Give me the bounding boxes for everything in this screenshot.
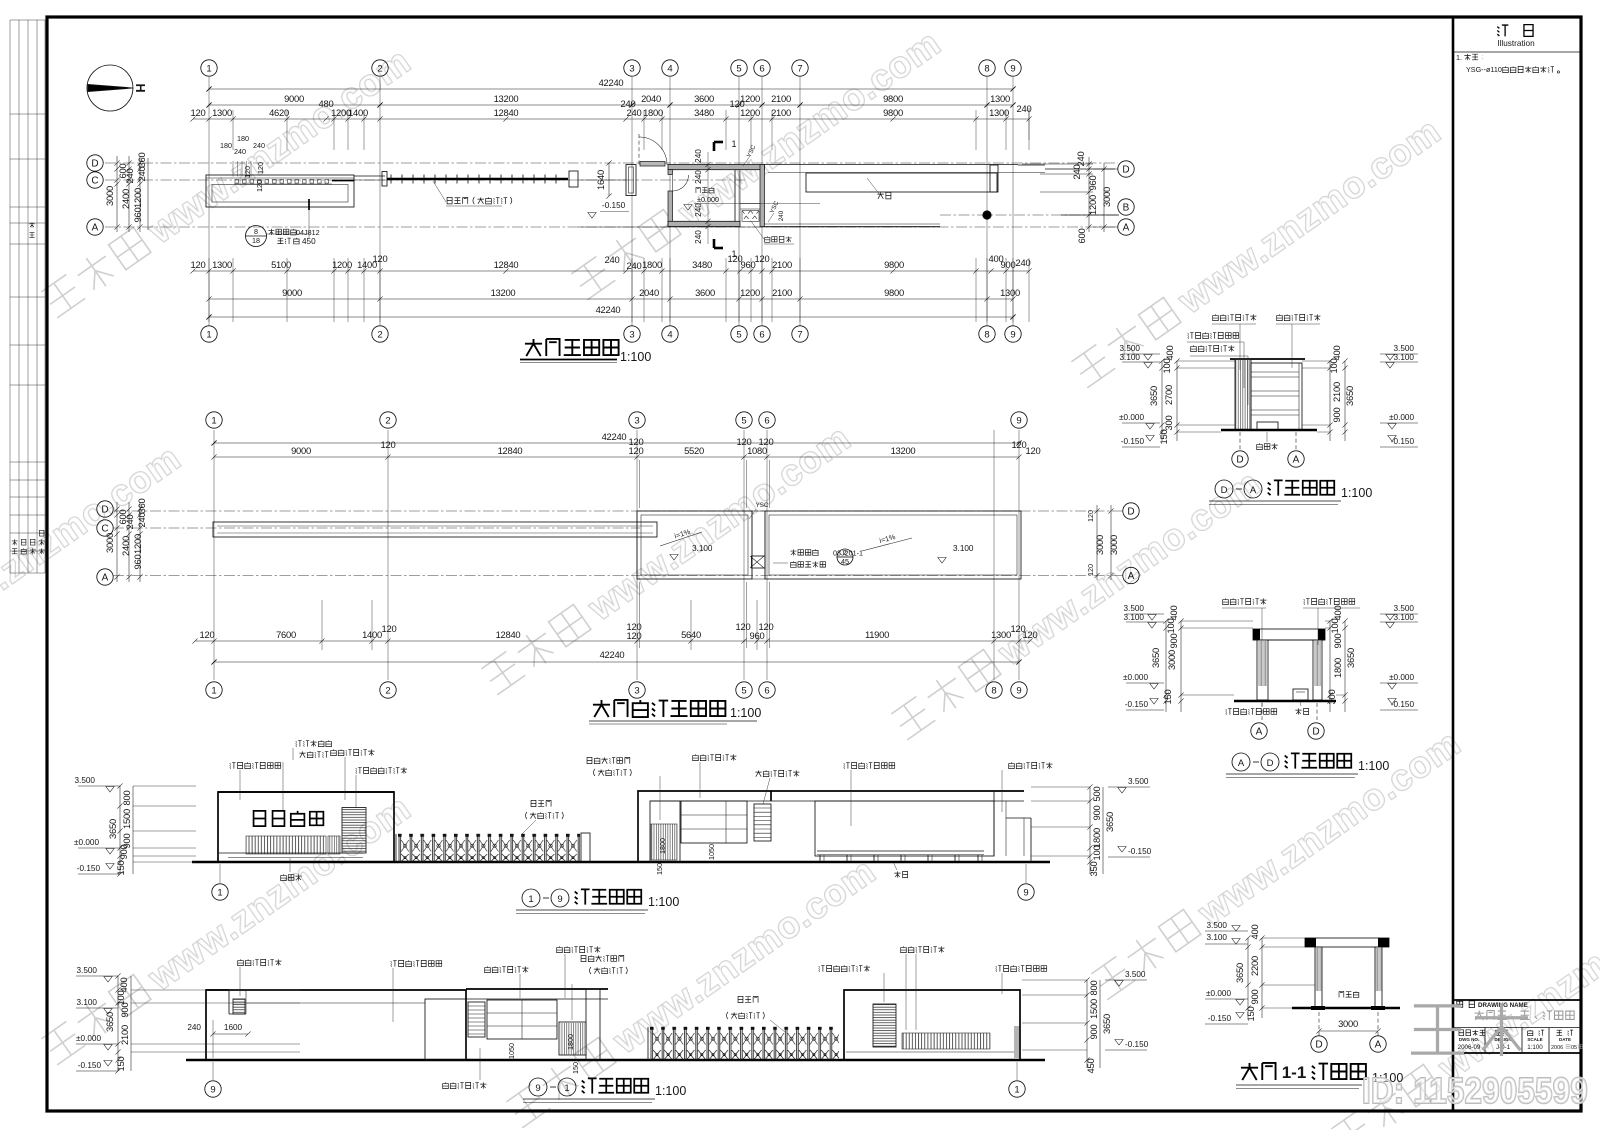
roof: left axis circles [97, 501, 113, 517]
svg-text:-0.150: -0.150 [1125, 700, 1149, 709]
svg-text:1:100: 1:100 [620, 350, 651, 364]
svg-text:YSG--ø110: YSG--ø110 [1466, 65, 1502, 74]
svg-text:1: 1 [528, 894, 533, 905]
svg-text:1800: 1800 [643, 107, 663, 118]
svg-text:-0.150: -0.150 [602, 201, 626, 210]
svg-text:-0.150: -0.150 [77, 864, 101, 873]
roof: right roof drain note [837, 549, 853, 565]
svg-text:05: 05 [1571, 1045, 1577, 1051]
svg-text:42240: 42240 [602, 431, 627, 442]
svg-text:1:100: 1:100 [655, 1084, 686, 1098]
svg-text:900: 900 [119, 1003, 130, 1018]
svg-text:1: 1 [211, 415, 216, 426]
svg-text:A: A [1256, 727, 1263, 738]
svg-text:240: 240 [694, 230, 703, 244]
svg-text:3.100: 3.100 [1120, 353, 1141, 362]
plan: wall gate to pier [578, 179, 626, 181]
plan: axis D centerline [105, 162, 1118, 164]
plan: left axis circles D C A [87, 155, 103, 171]
svg-text:±0.000: ±0.000 [76, 1034, 101, 1043]
svg-text:3650: 3650 [1104, 812, 1115, 832]
svg-text:3.500: 3.500 [1125, 970, 1146, 979]
svg-text:1:100: 1:100 [730, 706, 761, 720]
svg-text:3000: 3000 [1094, 535, 1105, 555]
svg-text:120: 120 [373, 253, 388, 264]
elev91: right wall plinth [846, 1051, 1020, 1053]
roof: bottom dim row1 [195, 640, 1030, 642]
plan: top dim extension verticals [232, 110, 234, 150]
svg-text:120: 120 [1026, 445, 1041, 456]
svg-text:6: 6 [764, 415, 769, 426]
roof: grid verticals [213, 430, 215, 680]
svg-text:3.100: 3.100 [1394, 353, 1415, 362]
svg-text:3.500: 3.500 [1394, 604, 1415, 613]
svg-text:1800: 1800 [642, 259, 662, 270]
svg-text:9800: 9800 [884, 259, 904, 270]
svg-text:120: 120 [759, 436, 774, 447]
svg-text:240: 240 [778, 210, 785, 221]
svg-text:120: 120 [382, 623, 397, 634]
svg-text:DWG NO.: DWG NO. [1459, 1037, 1479, 1042]
big znzmo logo watermark [1411, 1003, 1528, 1056]
svg-text:-0.150: -0.150 [1125, 1040, 1149, 1049]
elev91: gatehouse window grid [487, 1000, 557, 1039]
svg-text:3650: 3650 [1150, 648, 1161, 668]
sec11: room label [1339, 991, 1344, 997]
svg-text:3000: 3000 [1108, 535, 1119, 555]
plan: top dim row2 [209, 104, 1013, 106]
plan: bench top wall band [765, 164, 1019, 166]
svg-text:240: 240 [1071, 165, 1082, 180]
plan: planter outer rect [206, 175, 354, 207]
tiled watermark layer [38, 40, 419, 324]
svg-text:1:100: 1:100 [1341, 486, 1372, 500]
plan: top dim line 42240 [209, 88, 1013, 90]
svg-text:150: 150 [115, 1057, 126, 1072]
svg-text:2100: 2100 [771, 107, 791, 118]
svg-text:1300: 1300 [991, 629, 1011, 640]
svg-text:120: 120 [1086, 510, 1095, 522]
svg-text:1500: 1500 [121, 809, 132, 829]
svg-text:4: 4 [667, 63, 672, 74]
elev91: gatehouse ladder [468, 1002, 485, 1037]
elev19: left sign wall outline [218, 792, 394, 862]
svg-text:6: 6 [759, 329, 764, 340]
svg-text:9000: 9000 [282, 287, 302, 298]
roof: right dim columns [1096, 505, 1098, 580]
svg-text:1: 1 [1014, 1084, 1019, 1095]
svg-text:12840: 12840 [494, 259, 519, 270]
roof: right axis circles [1123, 503, 1139, 519]
svg-text:5: 5 [741, 415, 746, 426]
plan title [525, 339, 542, 356]
svg-text:150: 150 [115, 861, 126, 876]
svg-text:3650: 3650 [107, 819, 118, 839]
svg-text:9800: 9800 [883, 107, 903, 118]
elev19: gatehouse window grid [681, 801, 747, 843]
svg-text:B: B [1123, 203, 1130, 214]
svg-text:1300: 1300 [990, 93, 1010, 104]
svg-text:2100: 2100 [1331, 382, 1342, 402]
svg-text:D: D [1127, 507, 1134, 518]
svg-text:240: 240 [187, 1023, 201, 1032]
svg-text:240: 240 [124, 515, 135, 530]
svg-text:120: 120 [627, 630, 642, 641]
plan: grid circles bottom [201, 326, 217, 342]
svg-text:150: 150 [571, 1062, 580, 1074]
elevAD: top beam [1253, 629, 1325, 640]
elev91: right wall gray strip [1014, 1026, 1019, 1058]
svg-text:180: 180 [237, 134, 249, 143]
svg-text:120: 120 [381, 439, 396, 450]
elevAD: axis circles [1261, 703, 1263, 720]
roof: bottom extension verticals [321, 600, 323, 650]
svg-text:240: 240 [136, 167, 147, 182]
plan: retractable gate right end post [569, 171, 578, 187]
svg-text:18: 18 [252, 236, 260, 245]
svg-text:2100: 2100 [119, 1025, 130, 1045]
roof: axis C centerline [113, 527, 640, 529]
plan: gatehouse left wall lower [668, 191, 673, 227]
shuoming (illustration) panel header [1497, 25, 1508, 36]
svg-text:1: 1 [211, 685, 216, 696]
svg-text:120: 120 [256, 162, 265, 174]
svg-text:1:100: 1:100 [648, 895, 679, 909]
svg-text:120: 120 [1086, 564, 1095, 576]
svg-text:D: D [1315, 1040, 1322, 1051]
svg-text:2200: 2200 [1249, 956, 1260, 976]
elev19: gatehouse ladder feature [754, 804, 771, 841]
svg-text:1300: 1300 [212, 107, 232, 118]
sec11: axis circles [1311, 1036, 1327, 1052]
roof: right roof slab [765, 511, 1021, 579]
title block frame [1453, 999, 1581, 1001]
svg-text:2: 2 [385, 685, 390, 696]
svg-text:1:100: 1:100 [1527, 1044, 1543, 1051]
svg-text:120: 120 [755, 253, 770, 264]
svg-text:±0.000: ±0.000 [1206, 989, 1231, 998]
svg-text:150: 150 [1162, 690, 1173, 705]
svg-text:3.500: 3.500 [1124, 604, 1145, 613]
roof: top dim row2 [214, 456, 1019, 458]
svg-text:42240: 42240 [599, 77, 624, 88]
elev19: bench label [894, 871, 900, 877]
plan: flower-bed reference symbol [246, 226, 267, 247]
plan: electric gate label [447, 197, 452, 203]
svg-text:03J201-1: 03J201-1 [833, 549, 863, 558]
svg-text:3650: 3650 [1344, 386, 1355, 406]
plan: retractable gate post left [382, 172, 387, 187]
svg-text:-0.150: -0.150 [1208, 1014, 1232, 1023]
svg-text:9: 9 [1016, 415, 1021, 426]
sec11: dim 3000 [1318, 1012, 1320, 1036]
plan: column dot at grid8/B [983, 211, 991, 219]
svg-text:120: 120 [200, 629, 215, 640]
svg-text:C: C [101, 524, 108, 535]
plan: gatehouse wall dim 240s [707, 152, 709, 244]
roof: grid circles bottom [206, 682, 222, 698]
elevDA: qingshitiao label [1257, 443, 1263, 449]
svg-text:1: 1 [206, 63, 211, 74]
svg-text:100: 100 [1161, 359, 1172, 374]
svg-text:12840: 12840 [496, 629, 521, 640]
svg-text:240: 240 [694, 149, 703, 163]
svg-text:Illustration: Illustration [1497, 39, 1535, 48]
elev91: gatehouse steel door [559, 1022, 586, 1055]
svg-text:1: 1 [564, 1083, 569, 1094]
elev91: left wall notch [206, 989, 229, 991]
svg-text:900: 900 [1332, 634, 1343, 649]
svg-text:D: D [1236, 455, 1243, 466]
elev19: ground line [192, 861, 1050, 864]
svg-text:3000: 3000 [104, 186, 115, 206]
elev19: electric gate label [531, 800, 536, 806]
svg-text:2040: 2040 [641, 93, 661, 104]
svg-text:600: 600 [1076, 229, 1087, 244]
title block: drawing name header [1457, 1001, 1463, 1007]
elev91: right wall grille [902, 1033, 990, 1049]
svg-text:3600: 3600 [695, 287, 715, 298]
svg-text:13200: 13200 [891, 445, 916, 456]
svg-text:DATE: DATE [1559, 1037, 1571, 1042]
svg-text:240: 240 [1075, 152, 1086, 167]
plan: bench label [877, 192, 883, 198]
svg-text:±0.000: ±0.000 [1389, 673, 1414, 682]
elevDA: right wall with bands [1251, 363, 1302, 430]
svg-text:3.100: 3.100 [1124, 613, 1145, 622]
svg-text:800: 800 [121, 791, 132, 806]
svg-text:900: 900 [1088, 1025, 1099, 1040]
svg-text:45: 45 [841, 557, 849, 566]
svg-text:240: 240 [1017, 103, 1032, 114]
svg-text:3.500: 3.500 [1120, 344, 1141, 353]
plan: right passage bottom wall [765, 223, 941, 225]
svg-text:1-1: 1-1 [1282, 1063, 1307, 1082]
svg-text:2400: 2400 [120, 189, 131, 209]
svg-text:13200: 13200 [491, 287, 516, 298]
elev91: fence label [738, 996, 743, 1002]
plan: planter grille band [206, 177, 354, 179]
svg-text:450: 450 [302, 237, 316, 246]
svg-text:400: 400 [1168, 606, 1179, 621]
elevAD: left column [1257, 640, 1268, 700]
svg-text:1050: 1050 [507, 1043, 516, 1059]
svg-text:400: 400 [118, 978, 129, 993]
plan: bottom dim line 42240 [209, 316, 1013, 318]
plan: flower-bed reference text [268, 229, 274, 235]
roof: right roof slope arrow [862, 538, 912, 551]
svg-text:300: 300 [1163, 416, 1174, 431]
north arrow [87, 65, 133, 111]
svg-text:8: 8 [984, 329, 989, 340]
elevAD: ground line [1234, 700, 1336, 703]
svg-text:13200: 13200 [494, 93, 519, 104]
svg-text:400: 400 [1164, 346, 1175, 361]
elev91: door opening [425, 999, 466, 1060]
svg-text:9: 9 [1016, 685, 1021, 696]
svg-text:1: 1 [206, 329, 211, 340]
elev19: labels above mid/right [587, 757, 592, 763]
svg-text:YSC: YSC [756, 502, 769, 509]
roof: center roof slab [637, 511, 752, 579]
elevDA: plinth step [1257, 422, 1278, 430]
elevDA: top slab [1230, 358, 1305, 360]
svg-text:7: 7 [797, 329, 802, 340]
title block: column headers [1459, 1030, 1464, 1036]
svg-text:SCALE: SCALE [1527, 1037, 1542, 1042]
svg-text:400: 400 [1331, 346, 1342, 361]
sec11: right column [1375, 947, 1382, 1007]
svg-text:ID: 1152905599: ID: 1152905599 [1362, 1070, 1588, 1111]
left margin title table [10, 19, 45, 21]
svg-text:120: 120 [1023, 629, 1038, 640]
svg-text:900: 900 [1168, 634, 1179, 649]
elev91: parapet secondary line [246, 1002, 425, 1004]
svg-text:A: A [1250, 485, 1257, 496]
elev19: pilaster hatch [328, 836, 340, 854]
svg-text:1200: 1200 [740, 107, 760, 118]
svg-text:3: 3 [629, 63, 634, 74]
svg-text:2040: 2040 [639, 287, 659, 298]
svg-text:1200: 1200 [332, 259, 352, 270]
elev91: fence [650, 1026, 839, 1060]
elevAD: bench in section [1293, 689, 1308, 700]
svg-text:5520: 5520 [684, 445, 704, 456]
elevDA: left hatched column [1235, 359, 1251, 430]
plan: wall planter to gate [354, 175, 385, 177]
plan: gatehouse door arc [672, 175, 674, 191]
svg-text:5: 5 [741, 685, 746, 696]
elev19: sign wall plinth [219, 852, 363, 854]
elev19: qingshitiao label [281, 874, 287, 880]
svg-text:1500: 1500 [1088, 999, 1099, 1019]
svg-text:240: 240 [627, 107, 642, 118]
svg-text:150: 150 [1158, 430, 1169, 445]
elev91: left tall wall [206, 990, 466, 1060]
plan: axis B centerline [940, 214, 1118, 216]
plan: bottom dim row1 [193, 270, 1029, 272]
svg-text:8: 8 [991, 685, 996, 696]
svg-text:120: 120 [629, 445, 644, 456]
svg-text:±0.000: ±0.000 [1389, 413, 1414, 422]
svg-text:100: 100 [1165, 619, 1176, 634]
elevDA: ground line [1221, 429, 1317, 432]
svg-text:900: 900 [118, 845, 129, 860]
svg-text:100: 100 [1328, 359, 1339, 374]
elevAD title [1232, 753, 1250, 771]
svg-text:-0.150: -0.150 [1121, 437, 1145, 446]
svg-text:900: 900 [1331, 408, 1342, 423]
roof: center roof slope arrow and level [660, 532, 702, 546]
svg-text:1:100: 1:100 [1358, 759, 1389, 773]
plan: lintel wall over pedestrian gate [640, 162, 665, 167]
svg-text:300: 300 [1326, 690, 1337, 705]
svg-text:2700: 2700 [1163, 385, 1174, 405]
plan: gatehouse room label [696, 187, 700, 193]
svg-text:1600: 1600 [224, 1023, 243, 1032]
roof: axis D centerline [113, 510, 1123, 512]
roof: grid circles top [206, 412, 222, 428]
elev91: grid circle 1 [1016, 1062, 1018, 1080]
svg-text:8: 8 [984, 63, 989, 74]
svg-text:1.: 1. [1456, 53, 1462, 62]
svg-text:6: 6 [759, 63, 764, 74]
elev19: fence end post [581, 833, 590, 862]
svg-text:1640: 1640 [595, 170, 606, 190]
plan: axis A centerline [105, 226, 1118, 228]
plan: bottom dim extension verticals [208, 258, 210, 322]
svg-text:2: 2 [377, 329, 382, 340]
elev19: right long wall [771, 790, 1024, 792]
plan: top dim row3 [193, 118, 1029, 120]
roof: left dim verticals [116, 502, 118, 582]
svg-text:-0.150: -0.150 [1128, 847, 1152, 856]
plan: planter leader ticks [232, 161, 234, 177]
svg-text:2: 2 [377, 63, 382, 74]
svg-text:960: 960 [132, 555, 143, 570]
svg-text:120: 120 [243, 166, 252, 178]
svg-text:1300: 1300 [1000, 287, 1020, 298]
elev91: gatehouse right post [586, 989, 600, 1060]
svg-text:3.500: 3.500 [75, 776, 96, 785]
plan: section cut marks 1 [714, 141, 723, 144]
svg-text:±0.000: ±0.000 [1119, 413, 1144, 422]
roof plan title [593, 700, 610, 717]
elev91: gatehouse labels [485, 966, 491, 972]
svg-text:960: 960 [132, 208, 143, 223]
svg-text:A: A [102, 573, 109, 584]
svg-text:3.100: 3.100 [953, 544, 974, 553]
svg-text:1050: 1050 [707, 844, 716, 860]
svg-text:400: 400 [1332, 606, 1343, 621]
elev91: ground line [186, 1059, 1045, 1062]
svg-text:-0.150: -0.150 [78, 1061, 102, 1070]
elev19: bench [817, 850, 984, 852]
svg-text:240: 240 [136, 513, 147, 528]
svg-text:2100: 2100 [772, 287, 792, 298]
elevDA title [1215, 480, 1233, 498]
plan: AC partition label [765, 236, 770, 242]
svg-text:A: A [92, 223, 99, 234]
svg-text:9: 9 [1010, 63, 1015, 74]
svg-text:C: C [91, 176, 98, 187]
svg-text:5100: 5100 [271, 259, 291, 270]
svg-text:4620: 4620 [269, 107, 289, 118]
elev19: grille hatch under sign [246, 836, 326, 854]
plan: grid verticals [208, 77, 210, 326]
svg-text:1800: 1800 [658, 838, 667, 854]
svg-text:1800: 1800 [566, 1034, 575, 1050]
svg-text:12840: 12840 [494, 107, 519, 118]
title block: drawing name [1475, 1011, 1484, 1020]
svg-text:3480: 3480 [692, 259, 712, 270]
svg-text:240: 240 [234, 147, 246, 156]
svg-text:1300: 1300 [212, 259, 232, 270]
plan: right axis circles [1118, 161, 1134, 177]
svg-text:A: A [1375, 1040, 1382, 1051]
svg-text:9000: 9000 [284, 93, 304, 104]
svg-text:9800: 9800 [883, 93, 903, 104]
right panel divider [1452, 17, 1455, 1111]
svg-text:120: 120 [736, 621, 751, 632]
svg-text:3480: 3480 [694, 107, 714, 118]
svg-text:2: 2 [385, 415, 390, 426]
plan: gatehouse right room wall [734, 170, 736, 222]
svg-text:3650: 3650 [1101, 1014, 1112, 1034]
roof: YSC shaft [752, 511, 765, 579]
elev91: right wall labels [819, 966, 825, 972]
roof: double grid segments [639, 460, 641, 508]
